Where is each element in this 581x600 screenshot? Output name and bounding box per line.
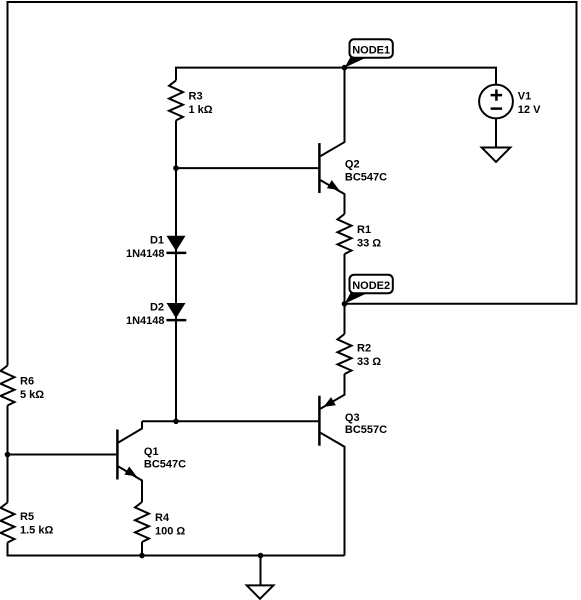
svg-text:R6: R6 — [20, 376, 34, 388]
svg-text:12 V: 12 V — [518, 104, 541, 116]
svg-text:R2: R2 — [357, 343, 371, 355]
svg-text:Q1: Q1 — [144, 446, 159, 458]
svg-text:D2: D2 — [150, 302, 164, 314]
ground (bottom) — [247, 585, 274, 598]
wire left rail R6 to R5 — [7, 406, 9, 503]
wire Q1 base — [8, 454, 117, 456]
resistor R6 — [1, 366, 45, 406]
resistor R4 — [135, 502, 185, 542]
resistor R5 — [1, 503, 54, 543]
svg-text:1N4148: 1N4148 — [126, 315, 165, 327]
svg-text:1 kΩ: 1 kΩ — [189, 104, 213, 116]
node junction dot D2 bottom / Q1 collector / Q3 base — [173, 419, 179, 425]
svg-text:D1: D1 — [150, 235, 164, 247]
svg-text:R1: R1 — [357, 224, 371, 236]
node NODE1 junction dot — [342, 65, 348, 71]
resistor R3 — [169, 80, 213, 120]
wire R1 bottom to NODE2 to R2 top — [344, 254, 346, 334]
node NODE2 junction dot — [342, 301, 348, 307]
transistor Q1 BC547C (NPN) — [117, 421, 186, 502]
resistor R1 — [338, 214, 382, 254]
transistor Q2 BC547C (NPN) — [319, 68, 387, 214]
svg-text:NODE2: NODE2 — [352, 280, 390, 292]
node junction dot R3/Q2 base — [173, 165, 179, 171]
resistor R2 — [338, 334, 382, 374]
node label NODE2 — [345, 275, 393, 304]
wire NODE2 to right frame — [345, 303, 578, 305]
svg-text:BC557C: BC557C — [345, 424, 387, 436]
wire Q2 base — [176, 167, 318, 169]
node junction dot ground / bottom rail — [258, 553, 264, 559]
svg-text:R4: R4 — [155, 512, 170, 524]
svg-text:Q3: Q3 — [345, 412, 360, 424]
svg-text:BC547C: BC547C — [345, 171, 387, 183]
voltage source V1 12V — [479, 85, 541, 119]
node junction dot R4 / bottom rail — [139, 553, 145, 559]
wire ground stem — [260, 556, 262, 586]
wire bottom rail — [8, 543, 345, 556]
svg-text:33 Ω: 33 Ω — [357, 356, 381, 368]
node label NODE1 — [345, 39, 393, 67]
svg-text:Q2: Q2 — [345, 159, 360, 171]
svg-text:BC547C: BC547C — [144, 458, 186, 470]
svg-text:1N4148: 1N4148 — [126, 248, 165, 260]
wire Q1 collector to Q3 base — [142, 420, 318, 422]
node junction dot left rail / Q1 base — [5, 452, 11, 458]
diode D1 — [126, 235, 186, 261]
wire top supply rail y=67.6 — [176, 68, 496, 85]
svg-text:1.5 kΩ: 1.5 kΩ — [20, 525, 53, 537]
svg-text:R3: R3 — [189, 90, 203, 102]
svg-text:5 kΩ: 5 kΩ — [20, 389, 44, 401]
wire R4 bottom lead — [141, 542, 143, 556]
svg-text:33 Ω: 33 Ω — [357, 238, 381, 250]
wire V1 to ground — [495, 118, 497, 147]
svg-text:V1: V1 — [518, 91, 531, 103]
wire R3 bottom to middle branch down to Q1/Q3 base junction — [175, 120, 177, 421]
transistor Q3 BC557C (PNP) — [319, 374, 387, 556]
wire feedback frame (left rail top / top rail / right rail down to NODE2) — [8, 2, 577, 366]
svg-text:R5: R5 — [20, 511, 34, 523]
svg-text:100 Ω: 100 Ω — [155, 526, 185, 538]
ground (V1) — [482, 148, 511, 163]
svg-text:NODE1: NODE1 — [352, 45, 390, 57]
diode D2 — [126, 302, 186, 328]
